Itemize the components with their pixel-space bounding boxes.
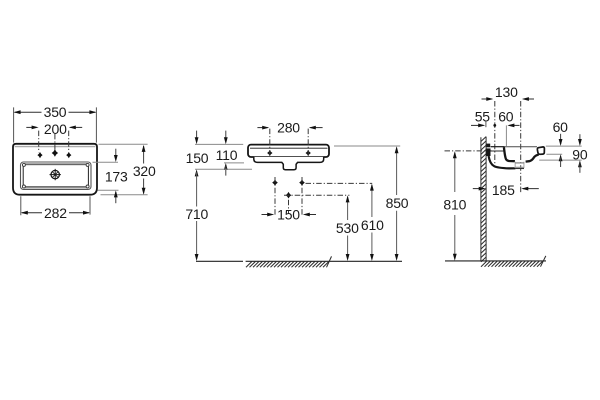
centreline drain horizontal bbox=[284, 194, 349, 196]
floor line bbox=[196, 260, 402, 262]
tap hole left bbox=[37, 152, 42, 158]
centreline tap left bbox=[38, 131, 40, 153]
dim 282 line bbox=[22, 212, 89, 214]
wall hatching bbox=[481, 137, 486, 262]
extension line 150 bottom bbox=[195, 168, 252, 170]
ledge shading line bbox=[15, 146, 96, 148]
svg-text:850: 850 bbox=[386, 195, 409, 211]
fixing hole left bbox=[267, 150, 272, 156]
svg-text:200: 200 bbox=[44, 121, 67, 137]
svg-text:150: 150 bbox=[186, 150, 209, 166]
fixing centreline horizontal bbox=[445, 150, 492, 152]
extension line rim top right side bbox=[546, 145, 582, 147]
extension line 110 bottom bbox=[224, 162, 244, 164]
dim 110 top arrow bbox=[225, 131, 227, 142]
wall lines bbox=[481, 137, 486, 261]
dim 130 arrows bbox=[482, 98, 492, 100]
dim 60 right arrows bbox=[560, 134, 562, 144]
centreline fixing left bbox=[269, 129, 271, 157]
inner rim inner rect bbox=[23, 165, 88, 187]
dim 200 arrows bbox=[26, 126, 36, 128]
centreline supply horizontal bbox=[306, 182, 373, 184]
rim bottom shading bbox=[25, 187, 88, 189]
centreline supply left bbox=[274, 177, 276, 217]
basin bowl front wall bbox=[526, 155, 539, 162]
basin underside bbox=[489, 156, 516, 168]
floor hatching bbox=[246, 256, 332, 267]
centreline tap side bbox=[494, 101, 496, 164]
extension line bottom right bbox=[101, 194, 148, 196]
rim top shading bbox=[25, 163, 88, 165]
svg-text:150: 150 bbox=[277, 207, 300, 223]
floor hatching right view bbox=[481, 256, 546, 267]
trap below bowl bbox=[515, 162, 524, 169]
svg-text:55: 55 bbox=[475, 108, 491, 124]
extension line top right bbox=[99, 143, 148, 145]
extension line apron bottom bbox=[539, 159, 582, 161]
extension line rim top right bbox=[93, 161, 119, 163]
drain diamond bbox=[286, 192, 292, 199]
inner rim outer rect bbox=[21, 162, 92, 190]
dim 90 arrows bbox=[579, 134, 581, 144]
dim 350 extension bars bbox=[14, 107, 97, 142]
dim 150/710 shared arrow bbox=[195, 169, 199, 176]
svg-text:60: 60 bbox=[498, 108, 514, 124]
dim 610 line bbox=[371, 185, 373, 259]
dim 55/60 arrows bbox=[471, 124, 484, 126]
dim 850 line bbox=[396, 148, 398, 259]
basin profile top line bbox=[491, 146, 505, 148]
dim 173 arrows bbox=[115, 149, 117, 160]
svg-text:90: 90 bbox=[572, 146, 588, 162]
svg-text:60: 60 bbox=[553, 119, 569, 135]
centreline fixing right bbox=[307, 129, 309, 157]
dim 110 bottom arrow bbox=[224, 163, 228, 170]
supply diamond left bbox=[272, 179, 278, 186]
dim 150 top arrow bbox=[196, 131, 198, 142]
dim 282 extension bars bbox=[21, 196, 90, 215]
tap hole right bbox=[66, 152, 71, 158]
svg-text:610: 610 bbox=[361, 217, 384, 233]
centreline drain vertical bbox=[288, 200, 290, 214]
svg-text:810: 810 bbox=[443, 197, 466, 213]
extension line basin back edge bbox=[505, 125, 507, 146]
floor line right view bbox=[445, 260, 546, 262]
rim corner circles bbox=[22, 163, 89, 188]
extension line lip bottom bbox=[546, 153, 562, 155]
fixing bracket bbox=[486, 144, 490, 148]
svg-text:130: 130 bbox=[495, 84, 518, 100]
skirt and trap outline bbox=[254, 157, 324, 170]
svg-text:710: 710 bbox=[185, 206, 208, 222]
svg-text:350: 350 bbox=[44, 104, 67, 120]
extension line rim bottom right bbox=[98, 189, 119, 191]
dim 810 line bbox=[454, 153, 456, 259]
svg-text:530: 530 bbox=[336, 220, 359, 236]
basin under ledge line bbox=[491, 150, 504, 152]
supply diamond right bbox=[299, 179, 305, 186]
extension line top left bbox=[195, 143, 243, 145]
centreline drain side bbox=[520, 101, 522, 192]
tap hole centre bbox=[52, 149, 58, 156]
dim 710 line bbox=[196, 172, 198, 258]
body inner line bbox=[250, 147, 328, 149]
centreline supply right bbox=[301, 177, 303, 217]
svg-text:320: 320 bbox=[133, 163, 156, 179]
basin outline (plan view) bbox=[13, 144, 97, 195]
extension line 850 top bbox=[334, 145, 400, 147]
wall face stub bbox=[485, 121, 487, 127]
basin bowl back wall bbox=[504, 147, 515, 161]
dim 530 line bbox=[347, 197, 349, 259]
basin body front bbox=[248, 145, 329, 157]
svg-text:282: 282 bbox=[44, 205, 67, 221]
centreline tap right bbox=[68, 131, 70, 153]
basin front lip bbox=[537, 147, 544, 154]
dim 350 line bbox=[15, 111, 96, 113]
svg-text:280: 280 bbox=[277, 120, 300, 136]
centreline tap centre bbox=[54, 134, 56, 150]
svg-text:173: 173 bbox=[105, 169, 128, 185]
dim 150 mid arrows bbox=[262, 214, 273, 216]
fixing hole right bbox=[306, 150, 311, 156]
drain symbol bbox=[50, 169, 61, 180]
svg-text:185: 185 bbox=[492, 182, 515, 198]
dim 320 line bbox=[143, 146, 145, 194]
dim 280 arrows bbox=[257, 127, 267, 129]
svg-text:110: 110 bbox=[216, 147, 238, 163]
dim 185 arrows bbox=[473, 188, 484, 190]
